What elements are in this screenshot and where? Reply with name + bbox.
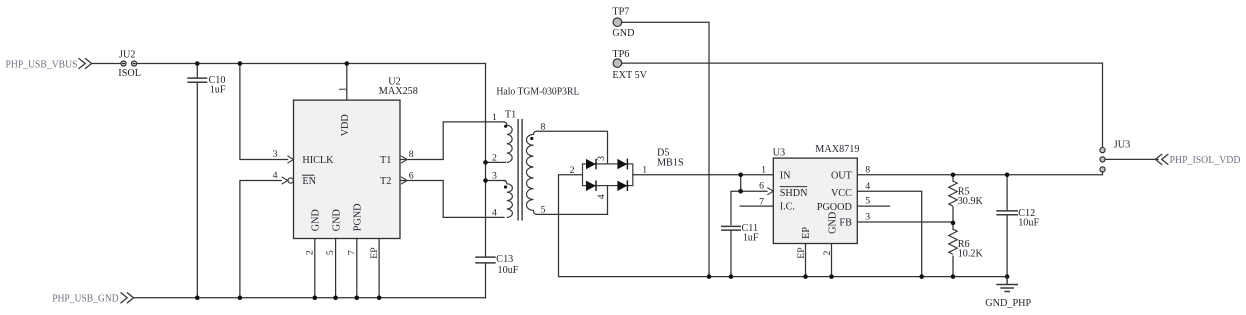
- wire C12 bottom stub: [1006, 215, 1008, 277]
- svg-text:EP: EP: [796, 247, 807, 259]
- svg-text:10uF: 10uF: [498, 265, 519, 276]
- transformer T1 label: [496, 87, 579, 121]
- test point TP6: [612, 49, 647, 81]
- wire C10 bottom to GND rail: [196, 83, 198, 298]
- capacitor C13: [475, 254, 519, 276]
- jumper JU3: [1100, 140, 1130, 172]
- U2 pin 2 GND: [304, 209, 321, 255]
- U3 pin 8 OUT: [831, 165, 870, 182]
- junction OUT rail / C12: [1005, 173, 1010, 178]
- junction SHDN / C11 branch: [738, 189, 743, 194]
- svg-text:8: 8: [541, 121, 546, 132]
- U3 pin 7 I.C.: [759, 196, 795, 212]
- svg-text:TP6: TP6: [612, 49, 629, 60]
- diode D5d (bottom right): [617, 180, 627, 191]
- junction T1 center tap pin 2: [483, 160, 488, 165]
- diode D5c (bottom left): [586, 180, 596, 191]
- wire U3 PGOOD stub: [857, 205, 889, 207]
- svg-text:Halo TGM-030P3RL: Halo TGM-030P3RL: [496, 87, 579, 98]
- svg-text:8: 8: [865, 165, 870, 176]
- U3 pin 5 PGOOD: [817, 196, 871, 213]
- svg-text:3: 3: [492, 171, 497, 182]
- svg-text:U3: U3: [773, 148, 785, 159]
- wire U3 FB to divider tap: [857, 221, 953, 224]
- U3 pin 1 IN: [761, 164, 791, 181]
- transformer phase dot secondary: [530, 137, 533, 140]
- transformer T1 secondary winding: [527, 131, 538, 214]
- U3 pin 3 FB: [839, 212, 870, 229]
- wire EN to USB GND rail: [240, 181, 281, 298]
- wire transformer pin 3 stub: [486, 180, 506, 182]
- U2 pin 7 PGND: [346, 203, 363, 255]
- U3 pin 4 VCC: [831, 181, 870, 199]
- svg-text:2: 2: [822, 251, 833, 256]
- svg-text:3: 3: [865, 212, 870, 223]
- junction iso GND / TP7: [707, 274, 712, 279]
- junction FB / divider tap: [951, 221, 956, 226]
- svg-text:5: 5: [541, 205, 546, 216]
- junction iso GND / U3 GND: [829, 274, 834, 279]
- svg-text:5: 5: [325, 250, 336, 255]
- svg-text:1uF: 1uF: [743, 233, 759, 244]
- wire U2 pin 5 GND to rail: [335, 239, 337, 298]
- svg-text:FB: FB: [839, 217, 852, 228]
- junction GND rail/pin5: [333, 296, 338, 301]
- U2 pin 3 HICLK: [273, 149, 335, 166]
- junction IN node / SHDN branch: [738, 173, 743, 178]
- svg-text:EN: EN: [302, 176, 316, 187]
- transformer phase dot primary lower: [504, 185, 507, 188]
- svg-text:GND_PHP: GND_PHP: [985, 298, 1031, 309]
- svg-text:4: 4: [273, 170, 278, 181]
- svg-text:8: 8: [409, 149, 414, 160]
- svg-text:EP: EP: [369, 247, 380, 259]
- U2 pin 4 EN (active low, bubble): [273, 170, 317, 187]
- wire TP7 to isolated GND rail: [622, 22, 709, 276]
- wire C12 top stub: [1006, 175, 1008, 211]
- svg-text:3: 3: [273, 149, 278, 160]
- junction GND rail/C10: [195, 296, 200, 301]
- svg-text:ISOL: ISOL: [118, 68, 141, 79]
- svg-text:TP7: TP7: [612, 6, 629, 17]
- wire TP6 EXT 5V to JU3 pin 1: [622, 63, 1103, 147]
- diode D5b (top right): [617, 159, 627, 170]
- svg-text:2: 2: [304, 250, 315, 255]
- svg-text:T2: T2: [380, 176, 391, 187]
- resistor R5: [949, 181, 984, 207]
- wire C11 bottom to GND rail: [730, 230, 732, 277]
- svg-text:HICLK: HICLK: [302, 155, 334, 166]
- capacitor C11: [721, 223, 759, 244]
- wire R5 top stub: [952, 175, 954, 181]
- svg-text:JU2: JU2: [119, 50, 135, 61]
- junction OUT rail / R5: [951, 173, 956, 178]
- svg-text:SHDN: SHDN: [780, 188, 808, 199]
- U2 pin 5 GND: [325, 209, 342, 255]
- wire bridge minus terminal to isolated GND rail: [559, 175, 1008, 277]
- wire U3 pin 2 GND to rail: [831, 244, 833, 277]
- wire U3 I.C. stub: [740, 205, 773, 207]
- svg-text:7: 7: [759, 196, 764, 207]
- wire transformer pin 5 to bridge AC bottom: [537, 186, 608, 215]
- svg-text:OUT: OUT: [831, 171, 853, 182]
- svg-text:GND: GND: [311, 209, 322, 231]
- svg-text:MAX8719: MAX8719: [815, 144, 859, 155]
- svg-text:PGND: PGND: [353, 203, 364, 231]
- diode bridge D5 reference: [657, 148, 684, 169]
- svg-text:IN: IN: [780, 171, 791, 182]
- svg-text:EXT 5V: EXT 5V: [612, 70, 647, 81]
- junction VBUS/HICLK: [238, 61, 243, 66]
- wire VBUS rail from JU2 to transformer center-tap drop: [137, 63, 486, 65]
- wire R5/R6 tap: [952, 207, 954, 229]
- wire center-tap vertical VBUS down to C13: [485, 64, 487, 257]
- svg-text:10.2K: 10.2K: [958, 249, 984, 260]
- wire PHP_USB_GND rail: [134, 297, 486, 299]
- svg-text:6: 6: [759, 181, 764, 192]
- svg-text:1: 1: [761, 164, 766, 175]
- junction GND rail/EN: [238, 296, 243, 301]
- U2 pin 8 T1: [380, 149, 414, 166]
- wire C10 top from VBUS: [196, 64, 198, 78]
- svg-text:30.9K: 30.9K: [958, 196, 984, 207]
- diode D5a (top left): [586, 159, 596, 170]
- junction iso GND / VCC drop: [919, 274, 924, 279]
- IC U2 MAX258 body: [294, 77, 418, 239]
- wire transformer pin 8 to bridge AC top: [537, 131, 608, 164]
- junction VBUS/VDD: [345, 61, 350, 66]
- wire JU3 pin 2 to PHP_ISOL_VDD chevron: [1105, 158, 1158, 160]
- jumper JU2: [118, 50, 141, 79]
- svg-text:1: 1: [642, 165, 647, 176]
- svg-text:T1: T1: [505, 109, 516, 120]
- node PHP_ISOL_VDD: [1155, 154, 1240, 166]
- svg-text:7: 7: [346, 250, 357, 255]
- wire U3 SHDN tie to IN node: [741, 175, 767, 191]
- svg-text:1uF: 1uF: [210, 85, 226, 96]
- U3 pin 6 SHDN: [759, 181, 808, 199]
- U2 pin 6 T2: [380, 170, 414, 187]
- svg-text:4: 4: [865, 181, 870, 192]
- transformer T1 primary winding lower: [504, 181, 513, 218]
- junction iso GND / C11: [729, 274, 734, 279]
- wire U2 pin 7 PGND to rail: [356, 239, 358, 298]
- junction T1 center tap pin 3: [483, 178, 488, 183]
- svg-text:4: 4: [492, 208, 497, 219]
- wire U3 EP pad to GND rail: [805, 244, 807, 277]
- junction GND rail/EP: [377, 296, 382, 301]
- transformer T1 core: [518, 119, 522, 221]
- svg-text:VDD: VDD: [340, 114, 351, 136]
- wire C11 top from SHDN node: [731, 191, 741, 224]
- wire HICLK from VBUS junction: [240, 64, 288, 160]
- junction iso GND / R6: [951, 274, 956, 279]
- svg-text:5: 5: [865, 196, 870, 207]
- capacitor C12: [996, 208, 1039, 228]
- wire U2 VDD pin 1 to VBUS: [346, 64, 348, 101]
- svg-text:MB1S: MB1S: [657, 157, 684, 168]
- wire U2 T2 pin 6 to transformer pin 4: [400, 181, 504, 218]
- wire U3 VCC to GND rail: [857, 191, 921, 276]
- wire U2 T1 pin 8 to transformer pin 1: [400, 122, 504, 160]
- svg-text:VCC: VCC: [831, 188, 852, 199]
- svg-text:3: 3: [596, 156, 607, 161]
- svg-text:EP: EP: [801, 227, 812, 239]
- diode bridge D5 frame: [583, 164, 633, 186]
- svg-text:PHP_USB_GND: PHP_USB_GND: [52, 293, 119, 304]
- svg-text:6: 6: [409, 170, 414, 181]
- junction VBUS/C10: [195, 61, 200, 66]
- resistor R6: [949, 229, 984, 260]
- svg-text:T1: T1: [380, 155, 391, 166]
- test point TP7: [612, 6, 634, 39]
- svg-text:PGOOD: PGOOD: [817, 202, 852, 213]
- wire VBUS rail from input chevron to JU2: [92, 63, 121, 65]
- transformer T1 primary winding upper: [504, 122, 513, 162]
- transformer phase dot primary upper: [504, 125, 507, 128]
- svg-text:4: 4: [596, 194, 607, 199]
- IC U3 MAX8719 body: [773, 144, 860, 244]
- wire R6 bottom stub: [952, 256, 954, 276]
- junction iso GND / C12 / ground symbol: [1005, 274, 1010, 279]
- capacitor C10: [187, 75, 226, 96]
- svg-text:1: 1: [337, 87, 348, 92]
- svg-text:1: 1: [492, 112, 497, 123]
- svg-text:GND: GND: [827, 212, 838, 234]
- wire U3 OUT rail to JU3 pin 3: [857, 172, 1102, 175]
- svg-text:MAX258: MAX258: [379, 86, 418, 97]
- svg-text:GND: GND: [331, 209, 342, 231]
- node PHP_USB_VBUS: [6, 58, 92, 70]
- junction GND rail/pin7: [355, 296, 360, 301]
- wire U2 EP pad to rail: [378, 239, 380, 298]
- svg-text:2: 2: [570, 165, 575, 176]
- ground GND_PHP: [985, 277, 1031, 310]
- svg-text:10uF: 10uF: [1018, 217, 1039, 228]
- svg-text:2: 2: [492, 153, 497, 164]
- svg-text:PHP_USB_VBUS: PHP_USB_VBUS: [6, 59, 78, 70]
- wire C13 bottom to rail corner: [485, 263, 487, 298]
- wire bridge plus output to U3 IN: [633, 174, 774, 176]
- svg-text:C13: C13: [496, 254, 513, 265]
- wire U2 pin 2 GND to rail: [314, 239, 316, 298]
- node PHP_USB_GND: [52, 292, 133, 304]
- wire transformer pin 2 stub: [486, 161, 506, 163]
- svg-text:I.C.: I.C.: [780, 202, 795, 213]
- junction GND rail/pin2: [313, 296, 318, 301]
- svg-text:PHP_ISOL_VDD: PHP_ISOL_VDD: [1170, 155, 1241, 166]
- junction iso GND / U3 EP: [803, 274, 808, 279]
- svg-text:JU3: JU3: [1114, 140, 1130, 151]
- svg-text:GND: GND: [612, 28, 634, 39]
